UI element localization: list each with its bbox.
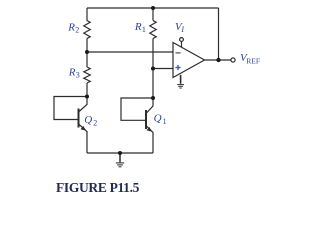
wire: Q1 base tie loop: [121, 98, 153, 120]
resistor R2: [84, 21, 90, 39]
ground at emitter rail: [116, 153, 124, 167]
svg-text:Q: Q: [154, 113, 162, 125]
node B junction (R1/non-inverting input): [151, 67, 155, 71]
wire: bottom emitter rail: [87, 152, 153, 154]
wire: node B down to Q1 collector node: [152, 69, 154, 99]
resistor R1: [150, 21, 156, 39]
svg-text:R: R: [67, 22, 75, 34]
svg-text:REF: REF: [246, 57, 260, 66]
wire: R1 top lead from rail: [152, 8, 154, 21]
svg-text:FIGURE P11.5: FIGURE P11.5: [56, 180, 140, 195]
junction: ground tap on emitter rail: [118, 151, 122, 155]
svg-text:I: I: [180, 25, 184, 34]
svg-text:3: 3: [76, 71, 80, 80]
junction: R1 top at rail: [151, 6, 155, 10]
junction: output/feedback node: [216, 58, 220, 62]
transistor Q1: [146, 98, 153, 153]
svg-text:2: 2: [93, 119, 97, 128]
label R3: [68, 67, 80, 80]
node A junction (R2/R3/inverting input): [85, 50, 89, 54]
label VI (op-amp supply input): [175, 21, 184, 34]
wire: non-inverting input from node B to op-amp: [153, 68, 173, 70]
wire: R2 top lead from rail: [86, 8, 88, 21]
label Q2: [84, 114, 97, 128]
svg-text:R: R: [68, 67, 76, 79]
wire: R3 top lead: [86, 52, 88, 67]
junction: Q1 collector-base tie: [151, 96, 155, 100]
terminal: VREF open circle: [231, 58, 235, 62]
label R1: [134, 21, 146, 34]
op-amp plus pin mark: [175, 65, 180, 70]
wire: R1 bottom lead crossing inverting wire down to node B: [152, 39, 154, 69]
svg-text:1: 1: [142, 25, 146, 34]
label VREF: [240, 52, 260, 66]
ground under op-amp: [177, 75, 184, 88]
resistor R3: [84, 67, 90, 83]
svg-text:1: 1: [163, 117, 167, 126]
label R2: [67, 22, 79, 35]
svg-text:R: R: [134, 21, 142, 33]
wire: R3 bottom lead to Q2 collector node: [86, 83, 88, 97]
wire: Q2 base tie loop: [54, 97, 87, 120]
op-amp minus pin mark: [176, 52, 181, 54]
op-amp U1: [173, 38, 205, 78]
wire: top supply rail: [87, 7, 219, 9]
wire: op-amp output to VREF terminal: [205, 59, 231, 61]
svg-text:2: 2: [75, 26, 79, 35]
junction: Q2 collector-base tie: [85, 95, 89, 99]
wire: feedback from rail down to op-amp output: [218, 8, 220, 60]
wire: R2 bottom lead to node A: [86, 39, 88, 53]
wire: inverting input from node A to op-amp: [87, 51, 173, 53]
transistor Q2: [79, 97, 88, 154]
svg-text:Q: Q: [84, 114, 92, 126]
label Q1: [154, 113, 167, 127]
